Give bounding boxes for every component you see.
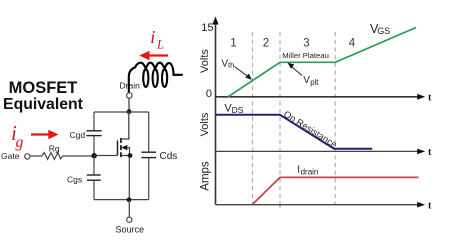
svg-text:Volts: Volts bbox=[199, 49, 211, 73]
transistor Q1 drain lead bbox=[121, 112, 129, 139]
wire to source terminal bbox=[128, 200, 130, 217]
wire resistor to gate node bbox=[63, 155, 94, 157]
transistor Q1 source lead bbox=[121, 155, 130, 157]
label Idrain bbox=[297, 165, 318, 177]
node source junction bbox=[128, 153, 133, 158]
svg-text:g: g bbox=[16, 134, 24, 151]
arrow iL (red, pointing left) bbox=[139, 51, 168, 60]
svg-text:Amps: Amps bbox=[199, 161, 211, 191]
svg-text:1: 1 bbox=[230, 38, 236, 50]
wire Cgs to bottom rail bbox=[93, 180, 95, 199]
t-axis middle bbox=[216, 147, 433, 158]
wire left rail upper (top rail to Cgd) bbox=[93, 112, 95, 131]
curve VDS (navy) bbox=[216, 115, 373, 149]
source terminal bbox=[127, 217, 132, 222]
svg-text:th: th bbox=[228, 61, 234, 70]
svg-text:Rg: Rg bbox=[49, 143, 60, 153]
svg-text:On Resistance: On Resistance bbox=[282, 109, 339, 150]
svg-text:GS: GS bbox=[377, 26, 390, 36]
svg-text:Cgd: Cgd bbox=[70, 130, 86, 140]
wire gate node to MOSFET gate bbox=[94, 155, 118, 157]
svg-text:3: 3 bbox=[303, 38, 309, 50]
capacitor Cgs bbox=[87, 175, 101, 180]
svg-text:Miller Plateau: Miller Plateau bbox=[282, 51, 329, 60]
inductor L1 bbox=[129, 63, 182, 92]
label VGS bbox=[370, 22, 390, 36]
dashed divider 1 bbox=[252, 32, 254, 204]
svg-text:DS: DS bbox=[232, 105, 244, 115]
tick below axis at divider 2 bbox=[279, 204, 281, 208]
dashed divider 2 bbox=[279, 32, 281, 207]
svg-text:i: i bbox=[150, 27, 155, 47]
label VDS bbox=[224, 103, 243, 115]
node gate junction bbox=[92, 153, 97, 158]
svg-text:2: 2 bbox=[263, 38, 269, 50]
label Vth with arrow bbox=[221, 59, 251, 80]
svg-text:0: 0 bbox=[206, 88, 212, 100]
svg-text:Cgs: Cgs bbox=[67, 175, 82, 185]
svg-text:t: t bbox=[428, 147, 432, 158]
node bottom junction bbox=[127, 197, 132, 202]
transistor Q1 channel segments bbox=[120, 138, 122, 157]
drain terminal bbox=[127, 93, 133, 99]
wire bottom rail bbox=[94, 199, 149, 201]
svg-text:t: t bbox=[428, 200, 432, 211]
svg-text:15: 15 bbox=[201, 22, 213, 34]
svg-text:Source: Source bbox=[116, 225, 145, 235]
svg-text:Gate: Gate bbox=[1, 151, 20, 161]
wire Cds to bottom rail bbox=[148, 158, 150, 200]
svg-text:MOSFET: MOSFET bbox=[9, 79, 78, 97]
wire Cgd to gate node bbox=[93, 136, 95, 156]
capacitor Cgd bbox=[86, 131, 101, 136]
svg-text:plt: plt bbox=[310, 78, 319, 87]
wire top rail bbox=[94, 111, 149, 113]
current label ig bbox=[11, 121, 24, 151]
svg-text:Volts: Volts bbox=[199, 112, 211, 136]
transistor Q1 gate bar bbox=[117, 140, 119, 155]
title MOSFET Equivalent bbox=[3, 79, 84, 113]
capacitor Cds bbox=[141, 152, 156, 157]
wire source to bottom rail bbox=[128, 156, 130, 200]
transistor Q1 body arrow bbox=[121, 145, 129, 156]
curve VGS (green) bbox=[228, 28, 416, 97]
y-axis bbox=[212, 17, 218, 205]
svg-text:Equivalent: Equivalent bbox=[3, 96, 84, 113]
wire gate terminal to resistor bbox=[30, 155, 42, 157]
gate terminal bbox=[25, 154, 30, 159]
svg-text:L: L bbox=[156, 37, 164, 51]
wire gate node to Cgs bbox=[93, 156, 95, 175]
dashed divider 3 bbox=[334, 32, 336, 204]
svg-text:drain: drain bbox=[301, 168, 319, 177]
wire drain terminal to node bbox=[128, 98, 130, 112]
t-axis top bbox=[216, 93, 433, 104]
t-axis bottom bbox=[216, 200, 433, 211]
svg-text:t: t bbox=[428, 93, 432, 104]
wire right rail upper (top rail to Cds) bbox=[148, 112, 150, 152]
svg-text:4: 4 bbox=[349, 38, 356, 50]
arrow ig (red, pointing right) bbox=[31, 130, 59, 139]
node drain junction bbox=[127, 109, 132, 114]
label Vplt with arrow bbox=[288, 63, 320, 87]
resistor Rg bbox=[42, 153, 63, 160]
curve Idrain (red) bbox=[253, 177, 419, 204]
current label iL bbox=[150, 27, 164, 51]
svg-text:Cds: Cds bbox=[160, 151, 178, 162]
svg-text:Drain: Drain bbox=[120, 81, 141, 91]
